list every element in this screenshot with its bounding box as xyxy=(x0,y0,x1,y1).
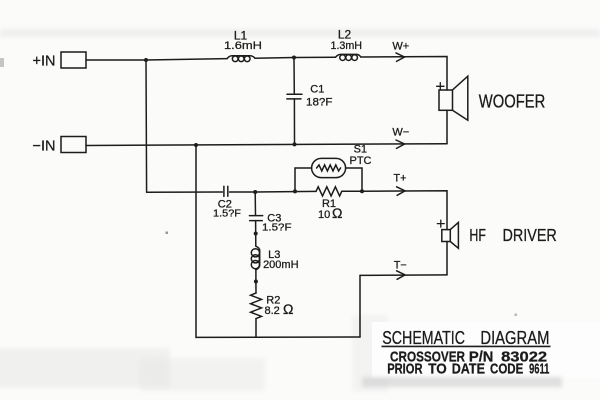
scan artifact band under title block xyxy=(362,377,562,387)
wire C1 branch lower xyxy=(293,99,295,144)
scan artifact band bottom-left xyxy=(0,348,170,388)
svg-text:HF: HF xyxy=(469,225,486,245)
node dot top rail at C1 branch xyxy=(292,56,296,60)
wire woofer bottom to W- rail xyxy=(446,110,448,143)
wire L3 to node xyxy=(255,270,257,282)
inductor L2 xyxy=(336,54,361,57)
svg-text:W−: W− xyxy=(392,126,409,138)
wire C1 branch upper xyxy=(293,58,295,95)
woofer speaker xyxy=(439,90,453,110)
wire L2 to woofer corner xyxy=(361,57,447,91)
wire C3 node to R1 left node xyxy=(255,190,316,193)
scan speck near R1 label xyxy=(515,314,518,317)
svg-text:1.5?F: 1.5?F xyxy=(213,207,241,219)
node dot top rail at +IN branch xyxy=(144,58,148,62)
scan speck near C2 xyxy=(166,232,169,235)
wire riser from bottom rail to T- xyxy=(359,275,361,337)
svg-text:DIAGRAM: DIAGRAM xyxy=(480,328,549,348)
svg-text:SCHEMATIC: SCHEMATIC xyxy=(382,328,465,348)
svg-text:+IN: +IN xyxy=(33,53,56,69)
svg-text:1.6mH: 1.6mH xyxy=(224,40,262,52)
scan artifact band top xyxy=(0,29,600,37)
inductor L1 xyxy=(227,56,255,59)
HF driver plus sign xyxy=(437,220,444,227)
terminal +IN box xyxy=(61,52,86,68)
inductor L3 xyxy=(256,246,260,270)
wire C1 node to L2 xyxy=(294,56,336,58)
node dot R1 left xyxy=(293,189,297,193)
capacitor C3 xyxy=(249,216,262,221)
PTC S1 body xyxy=(312,158,346,177)
svg-text:S1: S1 xyxy=(354,144,367,156)
svg-text:TO: TO xyxy=(428,362,446,378)
wire R2 to bottom rail xyxy=(255,319,257,338)
svg-text:DATE: DATE xyxy=(452,362,485,378)
arrow W+ xyxy=(396,53,405,62)
wire HF bottom to T- rail xyxy=(446,242,448,275)
svg-text:1.3mH: 1.3mH xyxy=(331,40,363,52)
wire L1 to C1 node xyxy=(255,57,294,60)
wire right node to HF corner xyxy=(362,191,447,230)
wire node to R2 xyxy=(255,282,257,294)
resistor R2 xyxy=(251,293,262,319)
wire bottom rail xyxy=(196,336,360,338)
svg-text:9611: 9611 xyxy=(529,362,549,378)
arrow T- xyxy=(397,271,406,280)
scan artifact band bottom-middle xyxy=(140,358,265,391)
svg-text:DRIVER: DRIVER xyxy=(503,225,557,245)
node dot T+ feed at C3 branch xyxy=(253,190,257,194)
svg-text:−IN: −IN xyxy=(33,139,56,155)
node dot R1 right xyxy=(360,189,364,193)
title block white backing xyxy=(372,322,600,378)
svg-text:C1: C1 xyxy=(310,83,324,95)
wire C3 branch upper xyxy=(254,192,256,215)
PTC S1 internal zigzag xyxy=(317,165,341,171)
node dot C3/L3 xyxy=(254,232,258,236)
wire top rail node to L1 xyxy=(146,59,227,60)
svg-text:PTC: PTC xyxy=(350,155,372,167)
wire R1 to right node xyxy=(342,190,362,192)
wire left vertical from -IN node down xyxy=(195,145,197,337)
wire C3 branch lower to node xyxy=(255,221,257,234)
PTC S1 branch right riser xyxy=(346,168,362,191)
scan speck left edge xyxy=(0,58,4,67)
node dot W- rail at C1 bottom xyxy=(293,142,297,146)
svg-text:18?F: 18?F xyxy=(306,96,333,108)
resistor R1 xyxy=(316,187,342,196)
capacitor C2 xyxy=(224,186,228,196)
arrow T+ xyxy=(397,187,406,196)
wire +IN lead to node xyxy=(86,59,146,61)
terminal -IN box xyxy=(61,137,86,153)
wire node to L3 xyxy=(255,234,257,247)
wire vertical from +IN node down to T+ feed xyxy=(145,60,148,192)
wire T+ feed line left segment to C2 xyxy=(147,191,223,193)
title underline xyxy=(382,345,551,347)
wire -IN lead / W- rail xyxy=(86,144,447,146)
svg-text:PRIOR: PRIOR xyxy=(387,362,423,378)
capacitor C1 xyxy=(287,94,302,99)
PTC S1 branch left riser xyxy=(295,168,312,191)
HF driver speaker xyxy=(442,230,451,242)
svg-text:1.5?F: 1.5?F xyxy=(262,222,292,234)
svg-text:200mH: 200mH xyxy=(263,259,299,271)
arrow W- xyxy=(396,140,405,148)
svg-text:T+: T+ xyxy=(394,172,407,184)
node dot L3/R2 xyxy=(254,280,258,284)
wire C2 to C3 node xyxy=(230,191,256,193)
svg-text:WOOFER: WOOFER xyxy=(479,92,546,112)
wire T- rail xyxy=(360,274,447,277)
woofer plus sign xyxy=(437,83,444,90)
svg-text:T−: T− xyxy=(394,260,407,272)
scan artifact column left of title block xyxy=(352,315,388,392)
node dot W- rail at left vertical xyxy=(194,143,198,147)
svg-text:CODE: CODE xyxy=(490,362,523,378)
svg-text:W+: W+ xyxy=(392,40,409,52)
